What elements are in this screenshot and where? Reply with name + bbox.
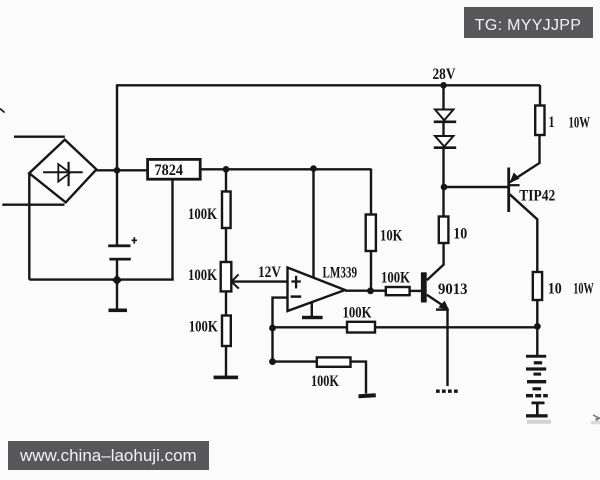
svg-text:28V: 28V: [433, 66, 456, 83]
svg-text:1: 1: [549, 114, 555, 131]
svg-text:100K: 100K: [381, 269, 410, 286]
svg-text:10W: 10W: [573, 280, 594, 297]
svg-text:100K: 100K: [311, 373, 339, 390]
svg-text:7824: 7824: [155, 162, 184, 179]
svg-text:100K: 100K: [343, 304, 372, 321]
svg-text:10K: 10K: [380, 227, 403, 244]
svg-text:100K: 100K: [189, 319, 218, 336]
svg-text:LM339: LM339: [323, 264, 358, 281]
svg-text:TIP42: TIP42: [519, 187, 555, 204]
svg-text:10: 10: [453, 225, 467, 242]
svg-text:10W: 10W: [569, 115, 591, 132]
svg-text:100K: 100K: [188, 206, 217, 223]
svg-text:100K: 100K: [188, 267, 217, 284]
svg-text:9013: 9013: [438, 281, 468, 298]
svg-text:10: 10: [548, 280, 562, 297]
svg-text:12V: 12V: [258, 264, 281, 281]
